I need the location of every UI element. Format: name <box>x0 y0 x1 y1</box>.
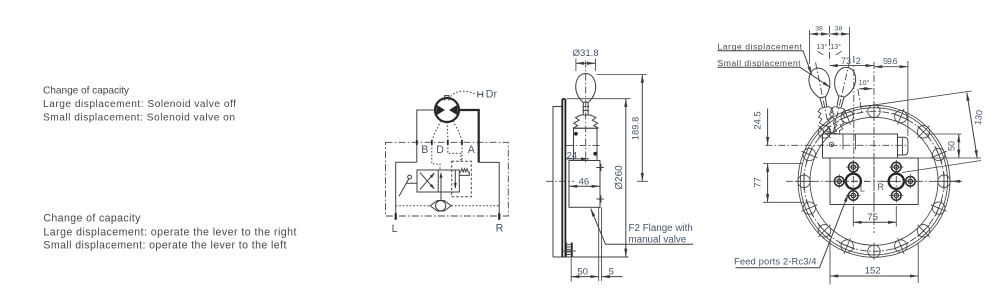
16 flange bolt holes <box>798 105 950 257</box>
svg-text:Small displacement: operate th: Small displacement: operate the lever to… <box>43 240 286 252</box>
feed port L (Rc3/4) <box>846 174 861 189</box>
dimension 130 <box>860 91 972 107</box>
svg-text:50: 50 <box>577 266 588 277</box>
svg-text:5: 5 <box>609 266 614 277</box>
valve straight-flow down arrow <box>454 170 456 188</box>
pilot line A-side drop <box>461 144 463 162</box>
dimension 59.6 <box>874 66 908 68</box>
boundary crossing ticks (top) <box>417 140 479 145</box>
bolt circle centerline <box>804 111 944 251</box>
enclosure boundary (chain-line box) <box>386 142 509 216</box>
dimension 189.8 <box>597 74 647 76</box>
drain pilot line to Dr <box>451 91 475 96</box>
lever axis centerline (left) <box>816 62 830 131</box>
svg-text:46: 46 <box>579 176 590 187</box>
motor flow triangle right <box>449 105 458 116</box>
10deg tilted axis <box>858 89 862 113</box>
svg-text:Feed ports 2-Rc3/4: Feed ports 2-Rc3/4 <box>734 256 817 267</box>
dimension 73.2 <box>830 65 875 67</box>
svg-text:50: 50 <box>946 141 956 151</box>
lever axis centerline (right) <box>834 61 850 131</box>
svg-text:D: D <box>436 144 444 156</box>
svg-text:B: B <box>421 144 428 156</box>
svg-text:Change of capacity: Change of capacity <box>43 85 130 96</box>
lever knob (large displacement position) <box>807 66 833 99</box>
side bolt lower <box>596 195 604 202</box>
svg-text:Dr: Dr <box>486 89 498 101</box>
note text block: change of capacity (solenoid) <box>43 85 236 123</box>
valve lower housing <box>569 161 600 208</box>
lever shaft (left) <box>820 97 827 108</box>
valve straight-flow up arrow / shuttle riser <box>440 173 442 201</box>
flange outer circle <box>798 105 950 257</box>
rubber boot (right) <box>825 106 848 135</box>
pilot line from motor (middle) <box>446 122 449 142</box>
svg-text:13°: 13° <box>830 42 841 51</box>
lever left position (large displacement) <box>805 60 840 134</box>
lever knob (small displacement position) <box>831 65 858 98</box>
shuttle valve SH1 <box>430 201 451 212</box>
valve upper housing <box>574 128 598 160</box>
vertical centerline <box>873 62 875 233</box>
side bolt upper <box>596 164 604 171</box>
front view of F2 flange <box>718 26 985 285</box>
dimension 50 <box>570 258 572 282</box>
dimension 5 <box>602 276 623 278</box>
svg-text:75: 75 <box>867 212 878 223</box>
lever axis centerline <box>585 61 587 164</box>
svg-text:73: 73 <box>841 56 851 66</box>
valve cell divider <box>437 170 439 192</box>
side view of motor with manual valve <box>546 48 693 281</box>
svg-text:24: 24 <box>567 151 578 162</box>
note text block: change of capacity (lever) <box>43 213 296 252</box>
dimension 50 (right) <box>918 134 981 158</box>
svg-text:L: L <box>392 223 398 235</box>
flange rim circle <box>800 108 947 255</box>
port mounting bolts <box>832 160 917 203</box>
pilot line from motor (left) <box>432 121 441 142</box>
svg-text:Ø31.8: Ø31.8 <box>573 48 599 59</box>
svg-text:Large displacement: operate th: Large displacement: operate the lever to… <box>43 226 296 238</box>
dimension Ø260 <box>567 98 631 100</box>
motor case-drain port symbol <box>444 96 450 101</box>
svg-text:Large displacement: Solenoid v: Large displacement: Solenoid valve off <box>43 99 236 110</box>
port R tick <box>498 213 500 220</box>
svg-text:59.6: 59.6 <box>883 56 898 66</box>
svg-text:Ø260: Ø260 <box>614 165 625 190</box>
svg-text:Small displacement: Solenoid v: Small displacement: Solenoid valve on <box>43 113 235 124</box>
13deg angle arcs <box>818 51 842 54</box>
valve body main block <box>830 158 918 205</box>
centerline end arrow at rim <box>952 180 962 182</box>
vent plug <box>829 142 833 146</box>
flange inner circle <box>810 117 938 245</box>
motor case rear outline <box>553 107 562 258</box>
drain port Dr symbol <box>478 91 483 97</box>
motor flow triangle left <box>436 105 445 116</box>
body centerline vertical <box>873 158 875 205</box>
svg-text:24.5: 24.5 <box>751 111 762 129</box>
svg-text:2: 2 <box>856 56 861 66</box>
feed port R (Rc3/4) <box>889 174 904 189</box>
lever mount column lines <box>843 134 856 150</box>
svg-text:A: A <box>468 144 476 156</box>
wire node A to port R <box>479 162 500 219</box>
bolt hole crosshair ticks <box>795 103 952 260</box>
pilot line from motor (right) <box>453 121 462 142</box>
lever right position (small displacement) <box>823 59 860 136</box>
svg-text:L: L <box>860 184 865 194</box>
svg-text:38: 38 <box>815 26 823 33</box>
centerline horizontal <box>546 180 574 182</box>
lever shaft (right) <box>836 96 844 108</box>
svg-text:152: 152 <box>865 266 881 277</box>
rubber boot bellows <box>573 115 599 128</box>
dimension 75 <box>853 206 896 227</box>
threaded stud at flange bottom <box>566 243 572 258</box>
svg-text:F2 Flange with: F2 Flange with <box>629 223 693 234</box>
housing pivot centerline <box>567 144 602 146</box>
svg-text:13°: 13° <box>816 42 827 51</box>
flange bottom edge / extension line <box>553 256 629 258</box>
svg-text:Large displacement: Large displacement <box>718 41 803 51</box>
valve V1 body <box>417 170 459 192</box>
leader: F2 flange with manual valve <box>591 209 693 245</box>
svg-text:38: 38 <box>835 26 843 33</box>
port L centerlines <box>838 163 869 201</box>
pilot line B-side drop to valve <box>432 144 440 170</box>
dimension 152 <box>830 240 918 285</box>
svg-text:manual valve: manual valve <box>629 235 687 246</box>
rubber boot (left) <box>816 106 838 135</box>
hydraulic circuit schematic <box>386 89 509 235</box>
dimension 38 38 <box>810 27 850 64</box>
drain gallery dotted line <box>396 205 500 207</box>
lever knob (side view) <box>576 74 596 103</box>
F2 flange plate <box>562 99 565 257</box>
pivot centerline <box>829 26 831 60</box>
valve return spring <box>459 169 469 176</box>
valve body upper block <box>823 134 898 158</box>
svg-text:77: 77 <box>751 177 762 187</box>
L-port axis extension <box>853 56 855 160</box>
port R centerlines <box>881 163 912 201</box>
wire motor right port to node A (bold) <box>459 110 479 162</box>
svg-text:Small displacement: Small displacement <box>718 58 802 68</box>
port L tick <box>395 213 397 220</box>
svg-text:R: R <box>877 182 884 192</box>
svg-text:R: R <box>496 223 504 235</box>
socket screw top <box>574 132 578 136</box>
valve crossed-flow arrow 2 <box>420 172 435 189</box>
horizontal centerline <box>786 180 962 182</box>
pilot dashed box at valve right <box>452 161 472 196</box>
dimension 77 <box>763 164 804 203</box>
pivot height centerline <box>765 144 908 146</box>
drain pipe below housing <box>599 207 602 281</box>
motor M1 (bidirectional hydraulic motor) <box>435 98 459 122</box>
lever shaft <box>582 102 589 115</box>
wire motor left port to node B <box>417 110 435 162</box>
svg-text:130: 130 <box>972 109 984 125</box>
svg-text:Change of capacity: Change of capacity <box>43 213 141 225</box>
svg-text:189.8: 189.8 <box>631 117 641 141</box>
spring cover tab <box>898 137 908 155</box>
valve crossed-flow arrow 1 <box>420 173 435 190</box>
dimension 24.5 <box>767 109 769 146</box>
manual lever <box>408 175 412 179</box>
svg-text:10°: 10° <box>859 78 870 87</box>
wire node B to port L <box>396 162 417 219</box>
socket screw bottom <box>593 152 597 156</box>
pilot line D drop <box>448 144 461 162</box>
